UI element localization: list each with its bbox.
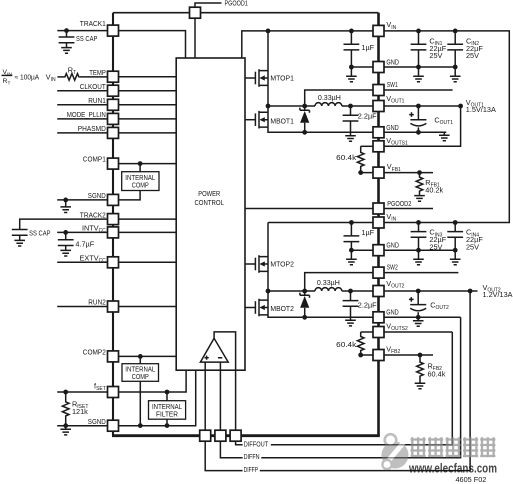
transistor MTOP2 xyxy=(245,255,294,273)
wire VFB2 row xyxy=(361,354,433,356)
node VOUT2 sense junction (DIFFP) xyxy=(468,289,473,294)
svg-text:www.elecfans.com: www.elecfans.com xyxy=(408,462,497,476)
svg-text:0.33µH: 0.33µH xyxy=(317,278,340,287)
capacitor CIN4 22uF 25V xyxy=(447,223,463,251)
pin VOUTS1 xyxy=(373,141,384,152)
wire GND row ch2 xyxy=(351,249,455,251)
ground (CIN1) xyxy=(413,67,424,82)
svg-text:2.2µF: 2.2µF xyxy=(358,112,377,121)
pin VFB2 xyxy=(373,350,384,361)
svg-text:POWER: POWER xyxy=(198,189,220,198)
node GND/CIN2 xyxy=(453,65,458,70)
wire SW2 to pin xyxy=(305,273,373,291)
pin SW2 xyxy=(373,267,384,278)
svg-text:PGOOD1: PGOOD1 xyxy=(225,0,248,8)
svg-text:1.5V/13A: 1.5V/13A xyxy=(466,105,496,114)
wire TRACK2 to box xyxy=(119,218,177,220)
node COMP1/internal comp xyxy=(138,161,143,166)
wire COMP1 to box xyxy=(119,163,177,165)
wire DIFFP xyxy=(205,291,470,471)
pin SW1 xyxy=(373,85,384,96)
wire RUN1 xyxy=(57,104,176,106)
inductor L1 0.33uH xyxy=(315,93,342,106)
capacitor CIN1 22uF 25V xyxy=(411,31,427,67)
ground (2.2uF ch2) xyxy=(345,320,356,326)
node GND2/C1uF-2 xyxy=(349,248,354,253)
resistor RfSET 121k xyxy=(62,392,88,426)
svg-text:PGOOD2: PGOOD2 xyxy=(387,199,411,208)
node GND/CIN1 xyxy=(416,65,421,70)
pin GND2A xyxy=(373,245,384,256)
pin COMP2 xyxy=(108,351,119,362)
pin TRACK2 xyxy=(108,214,119,225)
wire SW2 node row xyxy=(268,290,315,292)
pin INTVCC xyxy=(108,227,119,238)
capacitor 4.7uF (INTVCC) xyxy=(58,232,95,250)
wire MTOP2 drain to MBOT2 source / GND row ch2 xyxy=(268,223,373,318)
wire SW1 to pin xyxy=(305,90,373,106)
svg-text:RUN1: RUN1 xyxy=(88,96,106,105)
ground (SGND1) xyxy=(60,200,71,213)
svg-text:TRACK1: TRACK1 xyxy=(80,19,106,28)
pin DIFFN (bottom) xyxy=(215,430,226,441)
node SGND2/internal filter xyxy=(165,423,170,428)
svg-text:MODE_PLLIN: MODE_PLLIN xyxy=(67,110,106,119)
ground (SS CAP TRACK1) xyxy=(61,48,72,54)
capacitor CIN2 22uF 25V xyxy=(447,31,463,67)
svg-text:TEMP: TEMP xyxy=(89,68,106,77)
POWER CONTROL block U1 xyxy=(176,58,245,370)
ground (SGND2) xyxy=(60,426,71,435)
svg-text:60.4k: 60.4k xyxy=(336,340,356,349)
svg-text:40.2k: 40.2k xyxy=(425,186,443,195)
resistor RT (TEMP) xyxy=(57,66,107,81)
pin EXTVCC xyxy=(108,257,119,268)
svg-text:60.4k: 60.4k xyxy=(428,369,446,378)
svg-text:CONTROL: CONTROL xyxy=(194,198,224,207)
ground (4.7uF) xyxy=(60,250,71,256)
ground (2.2uF ch1) xyxy=(345,136,356,142)
svg-text:SS CAP: SS CAP xyxy=(29,228,51,237)
node VOUT1/COUT1 xyxy=(416,104,421,109)
node fSET/internal filter xyxy=(165,390,170,395)
wire TRACK1 stub and junction xyxy=(57,30,107,32)
pin GND1B xyxy=(373,127,384,138)
wire SGND1 stub xyxy=(57,199,107,201)
pin PGOOD1 wire xyxy=(195,3,222,7)
svg-text:25V: 25V xyxy=(429,243,442,252)
wire VIN row ch2 xyxy=(268,222,373,224)
wire SGND2 row xyxy=(57,370,196,426)
wire SW2 stub right xyxy=(384,272,458,274)
pin VIN1 xyxy=(373,25,384,36)
node COMP2/internal comp xyxy=(138,354,143,359)
watermark elecfans logo xyxy=(382,434,409,469)
wire SW1 stub right xyxy=(384,89,453,91)
svg-text:GND: GND xyxy=(386,123,399,132)
svg-text:1.2V/13A: 1.2V/13A xyxy=(483,290,513,299)
capacitor 2.2uF (ch2) xyxy=(343,291,378,320)
ground (COUT2) xyxy=(413,317,424,326)
pin DIFFOUT (bottom) xyxy=(230,430,241,441)
node INTVCC/4.7uF xyxy=(63,230,68,235)
svg-text:2.2µF: 2.2µF xyxy=(358,301,377,310)
pin GND1A xyxy=(373,62,384,73)
wire GND row ch1b right xyxy=(384,131,446,133)
INTERNAL COMP block (ch1) xyxy=(119,164,160,200)
wire L1 to VOUT1 pin xyxy=(342,105,373,107)
label CIN3 22uF 25V xyxy=(429,228,446,252)
wire VOUTS2 row right xyxy=(384,331,452,333)
wire GND row ch1 xyxy=(351,66,455,68)
svg-text:CLKOUT: CLKOUT xyxy=(80,82,106,91)
label CIN1 22uF 25V xyxy=(429,36,446,60)
wire MODE_PLLIN xyxy=(57,118,176,120)
wire TRACK1 to box top xyxy=(119,31,186,58)
capacitor CIN3 22uF 25V xyxy=(411,223,427,251)
pin VOUT1 xyxy=(373,101,384,112)
svg-text:SW2: SW2 xyxy=(387,263,398,272)
node SGND1 ground xyxy=(63,198,68,203)
label CIN4 22uF 25V xyxy=(466,228,483,252)
svg-text:DIFFP: DIFFP xyxy=(244,465,259,474)
ground (RFB1) xyxy=(414,196,425,202)
wire PGOOD1 pin to box top xyxy=(194,18,196,58)
svg-text:MBOT1: MBOT1 xyxy=(270,116,294,125)
node fSET/RfSET xyxy=(63,390,68,395)
svg-text:DIFFN: DIFFN xyxy=(244,452,260,461)
svg-text:MTOP1: MTOP1 xyxy=(270,73,294,82)
resistor 60.4k (ch1 divider top) xyxy=(336,146,373,172)
pin VFB1 xyxy=(373,167,384,178)
svg-text:DIFFOUT: DIFFOUT xyxy=(244,439,269,448)
wire VIN row ch1 left to box xyxy=(242,31,373,58)
node VIN2/CIN3 xyxy=(416,220,421,225)
svg-text:121k: 121k xyxy=(72,407,88,416)
wire diff amp output loop to DIFFOUT pin xyxy=(214,332,236,430)
ground (SS CAP TRACK2) xyxy=(14,240,25,246)
node GND2/CIN4 xyxy=(453,248,458,253)
pin COMP1 xyxy=(108,158,119,169)
pin GND2B xyxy=(373,312,384,323)
svg-text:SGND: SGND xyxy=(88,191,106,200)
node VIN/CIN1 xyxy=(416,29,421,34)
node VIN2/C1uF-2 xyxy=(349,220,354,225)
INTERNAL FILTER block xyxy=(149,392,186,426)
svg-text:MTOP2: MTOP2 xyxy=(270,259,294,268)
wire VOUT2 row right xyxy=(384,290,478,292)
node SGND2 ground xyxy=(63,423,68,428)
node VFB2/RFB2 xyxy=(418,353,423,358)
svg-text:PHASMD: PHASMD xyxy=(78,124,106,133)
wire INTVCC xyxy=(57,231,176,233)
wire diff amp - input to DIFFN pin xyxy=(219,362,221,430)
svg-text:4605 F02: 4605 F02 xyxy=(456,475,487,484)
svg-text:0.33µH: 0.33µH xyxy=(318,93,341,102)
wire L2 to VOUT2 pin xyxy=(342,290,373,292)
wire fSET to box bottom xyxy=(119,370,187,392)
node VIN2/CIN4 xyxy=(453,220,458,225)
wire COMP2 to box xyxy=(119,355,177,357)
transistor MTOP1 xyxy=(245,69,294,87)
svg-text:4.7µF: 4.7µF xyxy=(75,240,94,249)
svg-text:COMP2: COMP2 xyxy=(83,348,106,357)
node SW2 (MOSFET junction) xyxy=(266,289,271,294)
wire TEMP to box xyxy=(119,76,177,78)
label VIN/RT formula xyxy=(2,69,56,87)
wire PGOOD2 row xyxy=(245,208,433,210)
node VOUT2/COUT2 xyxy=(416,289,421,294)
wire DIFFOUT xyxy=(236,332,453,445)
pin MODE_PLLIN xyxy=(108,113,119,124)
transistor MBOT2 xyxy=(245,299,294,317)
svg-text:1µF: 1µF xyxy=(361,43,374,52)
node TRACK1/SS-CAP junction xyxy=(64,28,69,33)
node GND/D1 anode xyxy=(302,130,307,135)
diode D2 (ch2 Schottky) xyxy=(300,291,310,317)
wire fSET stub xyxy=(57,391,107,393)
wire VFB1 row xyxy=(361,172,433,174)
diode D1 (ch1 Schottky) xyxy=(300,106,310,132)
svg-text:1µF: 1µF xyxy=(361,228,374,237)
wire VOUTS1 remote sense xyxy=(384,106,461,146)
svg-text:25V: 25V xyxy=(466,243,479,252)
pin SGND2 xyxy=(108,420,119,431)
pin RUN1 xyxy=(108,99,119,110)
label CIN2 22uF 25V xyxy=(466,36,483,60)
transistor MBOT1 xyxy=(245,111,294,129)
ground (1uF ch2) xyxy=(346,250,357,265)
svg-text:TRACK2: TRACK2 xyxy=(80,210,106,219)
ground (CIN2) xyxy=(450,67,461,82)
pin VOUT2 xyxy=(373,286,384,297)
capacitor 1uF (ch2 VIN bypass) xyxy=(344,223,375,251)
pin TRACK1 xyxy=(108,25,119,36)
resistor 60.4k (ch2 divider top) xyxy=(336,332,373,355)
label VOUT2 1.2V/13A output xyxy=(483,283,513,299)
svg-text:25V: 25V xyxy=(466,51,479,60)
svg-text:RUN2: RUN2 xyxy=(88,298,106,307)
label VOUT1 1.5V/13A output xyxy=(466,98,496,114)
wire diff amp + input to DIFFP pin xyxy=(204,362,206,430)
svg-text:COMP1: COMP1 xyxy=(83,155,106,164)
svg-text:COMP: COMP xyxy=(132,372,149,381)
INTERNAL COMP block (ch2) xyxy=(122,356,159,425)
capacitor 2.2uF (ch1) xyxy=(343,106,378,136)
resistor RFB1 40.2k xyxy=(416,173,443,196)
IC package boundary (pin frame) xyxy=(112,13,380,436)
ground (CIN4) xyxy=(450,250,461,265)
pin DIFFP (bottom) xyxy=(200,430,211,441)
svg-text:GND: GND xyxy=(386,57,399,66)
node VOUT2/C2u2-2 xyxy=(348,289,353,294)
capacitor SS CAP (TRACK1) xyxy=(59,31,98,48)
svg-text:SW1: SW1 xyxy=(387,80,398,89)
svg-text:SGND: SGND xyxy=(88,417,106,426)
pin PGOOD1 xyxy=(190,7,201,18)
inductor L2 0.33uH xyxy=(315,278,342,291)
node GND/COUT1 xyxy=(416,130,421,135)
ground (RFB2) xyxy=(415,383,426,389)
wire GND row ch2b right xyxy=(384,316,461,318)
watermark chinese characters xyxy=(411,437,496,457)
node VOUT1 sense junction xyxy=(458,104,463,109)
capacitor 1uF (ch1 VIN bypass) xyxy=(344,31,375,67)
wire CLKOUT xyxy=(57,90,176,92)
wire DIFFN xyxy=(220,317,460,457)
wire EXTVCC xyxy=(57,261,176,263)
ground (1uF ch1) xyxy=(346,67,357,82)
pin CLKOUT xyxy=(108,85,119,96)
pin VOUTS2 xyxy=(373,327,384,338)
ground (GND row ch1 end) xyxy=(439,132,450,141)
svg-text:SS CAP: SS CAP xyxy=(76,34,98,43)
node VIN/C1uF-1 xyxy=(349,29,354,34)
svg-text:≈ 100µA: ≈ 100µA xyxy=(15,74,40,81)
wire SW1 node row xyxy=(268,105,315,107)
op-amp U2 (remote sense diff amp) xyxy=(200,338,228,362)
wire VOUT1 row right xyxy=(384,105,463,107)
wire PHASMD xyxy=(57,132,176,134)
node VIN/CIN2 xyxy=(453,29,458,34)
node VFB1/60.4k xyxy=(358,170,363,175)
ground (CIN3) xyxy=(413,250,424,265)
pin PGOOD2 xyxy=(373,203,384,214)
node SW1/diode D1 xyxy=(302,104,307,109)
svg-text:GND: GND xyxy=(386,308,399,317)
pin FSET xyxy=(108,387,119,398)
node GND/C1uF-1 xyxy=(349,65,354,70)
svg-text:MBOT2: MBOT2 xyxy=(270,304,294,313)
node SW1 (MOSFET junction) xyxy=(266,104,271,109)
node GND2/COUT2 xyxy=(416,315,421,320)
node GND2/D2 anode xyxy=(302,315,307,320)
node SGND2/internal comp2 xyxy=(138,423,143,428)
capacitor COUT1 xyxy=(409,106,453,132)
wire VIN bus right / down to ch2 xyxy=(384,31,509,223)
wire RUN2 xyxy=(57,306,176,308)
wire MTOP1 drain to MBOT1 source / GND row ch1 xyxy=(268,31,373,132)
node SW2/diode D2 xyxy=(302,289,307,294)
node VOUT1/C2u2-1 xyxy=(348,104,353,109)
pin TEMP xyxy=(108,71,119,82)
svg-text:FILTER: FILTER xyxy=(156,410,178,419)
node VFB2/60.4k xyxy=(358,353,363,358)
node VFB1/RFB1 xyxy=(417,170,422,175)
svg-text:COMP: COMP xyxy=(132,181,149,190)
capacitor COUT2 xyxy=(409,291,449,317)
pin VIN2 xyxy=(373,217,384,228)
pin RUN2 xyxy=(108,301,119,312)
resistor RFB2 60.4k xyxy=(417,355,446,383)
capacitor SS CAP (TRACK2) xyxy=(12,219,108,240)
svg-text:25V: 25V xyxy=(429,51,442,60)
node VIN/MTOP1 drain xyxy=(266,29,271,34)
node GND2/CIN3 xyxy=(416,248,421,253)
svg-text:60.4k: 60.4k xyxy=(336,153,356,162)
pin PHASMD xyxy=(108,127,119,138)
svg-text:GND: GND xyxy=(386,241,399,250)
pin SGND1 xyxy=(108,194,119,205)
